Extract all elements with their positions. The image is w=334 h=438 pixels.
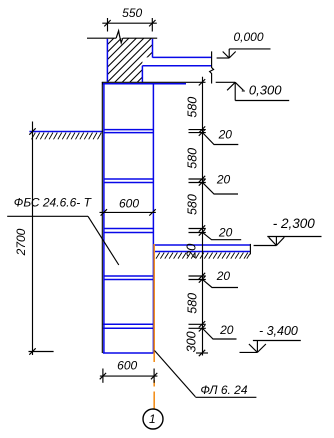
- svg-text:600: 600: [119, 197, 139, 211]
- svg-text:20: 20: [218, 128, 233, 142]
- svg-text:0,000: 0,000: [233, 30, 263, 44]
- svg-text:600: 600: [117, 358, 137, 372]
- svg-text:ФБС 24.6.6- Т: ФБС 24.6.6- Т: [14, 196, 93, 210]
- svg-text:20: 20: [219, 323, 234, 337]
- svg-text:20: 20: [184, 243, 199, 259]
- svg-text:580: 580: [185, 293, 199, 314]
- svg-text:2700: 2700: [14, 228, 28, 256]
- svg-text:580: 580: [185, 148, 199, 169]
- svg-text:- 0,300: - 0,300: [241, 83, 282, 98]
- svg-text:- 2,300: - 2,300: [273, 216, 316, 231]
- svg-text:- 3,400: - 3,400: [259, 324, 298, 338]
- svg-text:20: 20: [216, 172, 231, 186]
- svg-text:20: 20: [218, 225, 233, 239]
- svg-text:580: 580: [185, 97, 199, 118]
- svg-text:ФЛ 6. 24: ФЛ 6. 24: [200, 383, 247, 397]
- svg-text:20: 20: [216, 269, 231, 283]
- svg-text:550: 550: [122, 6, 142, 20]
- svg-text:300: 300: [185, 331, 199, 352]
- svg-text:1: 1: [149, 412, 156, 426]
- svg-text:580: 580: [185, 194, 199, 215]
